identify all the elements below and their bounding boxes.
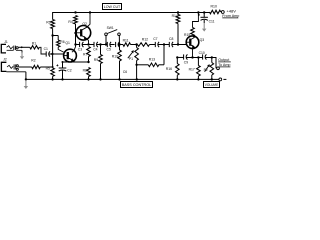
svg-text:VOLUME: VOLUME [205, 83, 219, 87]
svg-text:P2: P2 [204, 68, 208, 72]
svg-text:R10: R10 [211, 5, 217, 9]
svg-text:R12: R12 [142, 37, 148, 41]
svg-text:R14: R14 [172, 14, 178, 18]
svg-text:C1: C1 [44, 47, 48, 51]
svg-text:C3: C3 [78, 48, 82, 52]
svg-text:R5: R5 [46, 67, 50, 71]
svg-text:R9: R9 [94, 58, 98, 62]
svg-text:C4: C4 [93, 48, 97, 52]
svg-text:R13: R13 [149, 58, 155, 62]
svg-text:C9: C9 [184, 61, 188, 65]
svg-text:R10: R10 [112, 55, 118, 59]
svg-text:C8: C8 [169, 37, 173, 41]
svg-text:J2: J2 [3, 58, 7, 62]
svg-text:C2: C2 [67, 69, 71, 73]
svg-text:C11: C11 [209, 20, 215, 24]
svg-text:R16: R16 [166, 67, 172, 71]
svg-text:C10: C10 [199, 51, 205, 55]
svg-text:R6: R6 [60, 40, 64, 44]
svg-text:Q3: Q3 [200, 38, 205, 42]
svg-text:C5: C5 [107, 48, 111, 52]
svg-text:R7: R7 [83, 52, 87, 56]
svg-text:Q2: Q2 [82, 22, 87, 26]
svg-text:R17: R17 [189, 67, 195, 71]
svg-text:R4: R4 [68, 20, 72, 24]
svg-text:J1: J1 [4, 40, 8, 44]
svg-text:C7: C7 [153, 37, 157, 41]
svg-text:R2: R2 [31, 59, 35, 63]
svg-text:Q1: Q1 [65, 41, 70, 45]
svg-text:P1: P1 [129, 57, 133, 61]
svg-text:+48V: +48V [227, 9, 237, 14]
svg-text:To Amp: To Amp [218, 63, 230, 67]
svg-text:From Amp: From Amp [222, 14, 239, 18]
svg-text:R11: R11 [123, 38, 129, 42]
svg-text:Output: Output [218, 58, 229, 62]
svg-text:R8: R8 [83, 69, 87, 73]
svg-text:BASS CONTROL: BASS CONTROL [122, 83, 151, 87]
svg-text:LOW CUT: LOW CUT [104, 5, 121, 9]
svg-text:SW1: SW1 [107, 26, 114, 30]
svg-text:C6: C6 [123, 70, 127, 74]
svg-text:R3: R3 [46, 20, 50, 24]
svg-text:R1: R1 [32, 42, 36, 46]
